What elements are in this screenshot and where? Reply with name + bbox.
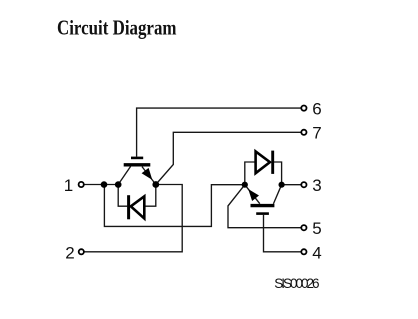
svg-text:4: 4 — [312, 243, 321, 262]
svg-text:SIS00026: SIS00026 — [274, 276, 319, 291]
wire Q1 emitter leg — [142, 167, 156, 185]
wire gate Q1 to pin 6 — [137, 108, 302, 157]
svg-text:Circuit Diagram: Circuit Diagram — [57, 15, 177, 39]
junction node on pin1 wire — [101, 181, 108, 188]
transistor Q2 emitter arrow — [248, 189, 259, 201]
svg-text:1: 1 — [64, 176, 73, 195]
wire diode D2 anode lead — [245, 162, 256, 185]
transistor Q1 channel bar — [124, 163, 151, 166]
transistor Q1 emitter arrow — [142, 168, 153, 180]
wire emitter Q1 to pin 2 — [84, 185, 182, 252]
junction node emitter Q1 — [152, 181, 159, 188]
svg-text:5: 5 — [312, 219, 321, 238]
pin terminal 6 — [301, 106, 306, 111]
wire Q2 collector leg — [273, 185, 281, 204]
diode D2 cathode bar — [271, 151, 274, 174]
pin terminal 3 — [301, 182, 306, 187]
wire Q1 collector leg — [118, 166, 130, 184]
svg-text:2: 2 — [65, 243, 74, 262]
transistor Q2 channel bar — [251, 204, 275, 207]
wire pin1 to node dots — [84, 184, 118, 186]
wire diode D2 cathode lead — [274, 162, 282, 185]
wire emitter Q1 to pin 7 — [156, 132, 301, 184]
pin terminal 2 — [79, 249, 84, 254]
diode D1 cathode bar — [127, 195, 130, 219]
transistor Q2 gate bar — [256, 212, 269, 215]
wire collector Q2 to pin 3 — [282, 184, 302, 186]
pin terminal 5 — [301, 225, 306, 230]
wire Q2 emitter leg — [245, 185, 260, 204]
svg-text:7: 7 — [312, 124, 321, 143]
pin terminal 1 — [79, 182, 84, 187]
svg-text:3: 3 — [312, 176, 321, 195]
junction node collector Q2 — [279, 182, 285, 188]
junction node emitter Q2 — [242, 182, 248, 188]
diode D1 triangle — [131, 196, 145, 218]
diode D2 triangle — [256, 151, 270, 173]
wire node1 down, across, up to emitter of Q2 — [104, 185, 243, 227]
wire diode D1 cathode lead — [118, 185, 127, 207]
junction node collector Q1 — [115, 181, 122, 188]
wire emitter Q2 to pin 5 — [228, 185, 301, 228]
wire gate Q2 to pin 4 — [264, 215, 302, 252]
svg-text:6: 6 — [312, 100, 321, 119]
wire diode D1 anode lead — [144, 185, 156, 207]
transistor Q1 gate bar — [131, 157, 143, 160]
pin terminal 4 — [301, 249, 306, 254]
pin terminal 7 — [301, 130, 306, 135]
